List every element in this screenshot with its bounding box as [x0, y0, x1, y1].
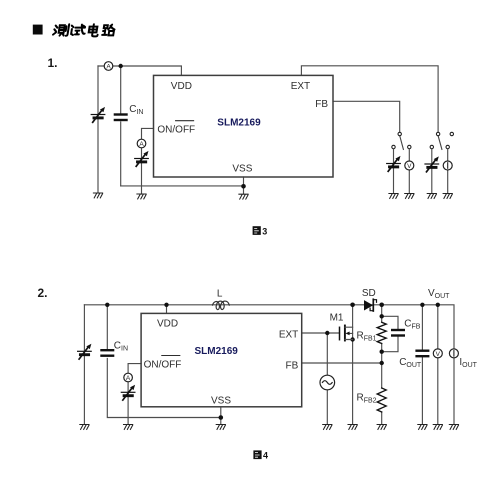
variable source VS1	[91, 107, 105, 122]
node: rail dot VOUT	[436, 303, 440, 307]
ground: SW2 throw A	[427, 194, 436, 199]
wire: top VIN/VOUT rail	[84, 305, 454, 424]
node: junction dot VSS/rail	[241, 184, 246, 189]
ground: RFB2	[377, 425, 386, 430]
wire: SW1 throw B branch	[408, 149, 410, 194]
wire: FB to switch 1	[333, 101, 400, 132]
ground: VSS	[239, 194, 248, 199]
node: rail dot M1 drain	[350, 303, 355, 308]
ground: VSS	[216, 425, 225, 430]
switch SW2 (EXT)	[430, 132, 453, 149]
wire: VSS pin to ground	[243, 177, 245, 194]
ground: COUT	[418, 425, 427, 430]
ground: ON/OFF branch	[124, 425, 133, 430]
capacitor CIN2	[102, 350, 114, 356]
op IC U2 SLM2169 box	[141, 313, 302, 406]
wire: bottom rail to VSS	[121, 185, 244, 187]
voltmeter V2	[433, 349, 442, 358]
node: rail dot VDD	[164, 303, 168, 307]
voltmeter V1	[405, 161, 414, 170]
node: rail dot CIN	[105, 303, 109, 307]
wire: SW1 throw A branch	[393, 149, 395, 194]
ground: SW1 throw B	[405, 194, 414, 199]
wire: SW2 throw A branch	[431, 149, 433, 194]
node: EXT/sine tap	[325, 331, 329, 335]
wire: VSS pin to rail/ground	[220, 407, 222, 424]
sine signal source SG1	[320, 375, 335, 390]
ground: input source	[80, 425, 89, 430]
variable source VS3	[387, 156, 401, 171]
svg-text:ON/OFF: ON/OFF	[157, 125, 195, 136]
schottky diode SD	[364, 299, 377, 311]
svg-text:EXT: EXT	[291, 81, 310, 92]
wire: CIN branch down to bottom rail	[120, 66, 122, 186]
wire: RFB2 branch	[381, 363, 383, 424]
wire: ON/OFF branch	[128, 364, 141, 424]
ground: sine source	[323, 425, 332, 430]
section heading text 测试电路 (hand-drawn strokes)	[53, 24, 116, 36]
wire: VDD pin	[166, 305, 168, 314]
svg-text:VDD: VDD	[157, 319, 178, 330]
wire: input source branch	[83, 305, 85, 424]
current source IOUT	[449, 349, 458, 358]
variable source VS5	[78, 344, 92, 359]
svg-text:SLM2169: SLM2169	[217, 118, 261, 129]
transistor M1	[340, 326, 353, 341]
wire: ON/OFF control branch	[142, 128, 154, 194]
svg-text:2.: 2.	[38, 286, 48, 300]
ground: supply branch	[93, 193, 102, 198]
svg-text:3: 3	[262, 226, 267, 236]
wire: input supply branch (left vertical)	[97, 66, 99, 193]
node: junction dot VDD/CIN	[119, 64, 123, 68]
figure caption 图3	[253, 226, 268, 236]
svg-text:4: 4	[263, 451, 268, 461]
wire: COUT branch	[421, 305, 423, 424]
node: FB divider tap	[380, 361, 384, 365]
node: CFB bottom tap	[380, 350, 384, 354]
wire: FB pin to divider	[302, 362, 382, 364]
node: VSS rail junction	[219, 415, 224, 420]
capacitor COUT	[417, 351, 429, 357]
capacitor CIN	[115, 115, 127, 121]
figure caption 图4	[253, 450, 268, 460]
svg-text:M1: M1	[330, 313, 344, 324]
section heading bullet square	[33, 25, 43, 35]
wire: EXT loop to switch 2	[301, 66, 438, 133]
wire: SW2 throw B branch	[447, 149, 449, 194]
inductor L	[213, 301, 230, 310]
variable source VS4	[425, 156, 439, 171]
wire: CFB branch	[382, 316, 398, 351]
ground: SW1 throw A	[389, 194, 398, 199]
wire: EXT to M1 gate	[302, 332, 340, 334]
wire: VDD feed from ammeter to pin	[98, 66, 181, 75]
wire: voltmeter branch	[437, 305, 439, 424]
svg-text:SLM2169: SLM2169	[195, 346, 239, 357]
svg-text:SD: SD	[362, 288, 376, 299]
svg-text:1.: 1.	[48, 56, 58, 70]
capacitor CFB	[392, 330, 404, 336]
wire: sine source branch	[326, 333, 328, 424]
resistor RFB1	[377, 322, 386, 343]
wire: CIN branch + bottom rail to VSS	[107, 305, 221, 418]
svg-text:VSS: VSS	[211, 395, 231, 406]
ground: SW2 throw B	[443, 194, 452, 199]
switch SW1 (FB)	[392, 132, 411, 149]
svg-text:VDD: VDD	[171, 81, 192, 92]
node: rail dot SD cathode	[379, 303, 384, 308]
current source IS1	[443, 161, 452, 170]
node: CFB top tap	[380, 314, 384, 318]
ground: IOUT	[449, 425, 458, 430]
svg-text:ON/OFF: ON/OFF	[144, 359, 182, 370]
resistor RFB2	[377, 388, 386, 412]
variable source VS2	[135, 151, 149, 166]
variable source VS6	[121, 385, 135, 400]
svg-text:FB: FB	[315, 99, 328, 110]
op IC U1 SLM2169 box	[154, 75, 334, 177]
wire: M1 drain/source vertical	[352, 305, 354, 424]
node: rail dot COUT	[420, 303, 424, 307]
ammeter A1 (supply current)	[104, 62, 113, 71]
wire: RFB1 branch	[381, 305, 383, 363]
svg-text:FB: FB	[286, 360, 299, 371]
svg-text:L: L	[217, 289, 223, 300]
ammeter A2 (ON/OFF current)	[137, 139, 146, 148]
svg-text:VSS: VSS	[232, 164, 252, 175]
ground: M1 source	[348, 425, 357, 430]
svg-text:EXT: EXT	[279, 330, 298, 341]
ammeter A3	[124, 373, 133, 382]
ground: voltmeter	[433, 425, 442, 430]
ground: ON/OFF branch	[137, 194, 146, 199]
node: M1 source tie	[350, 337, 354, 341]
